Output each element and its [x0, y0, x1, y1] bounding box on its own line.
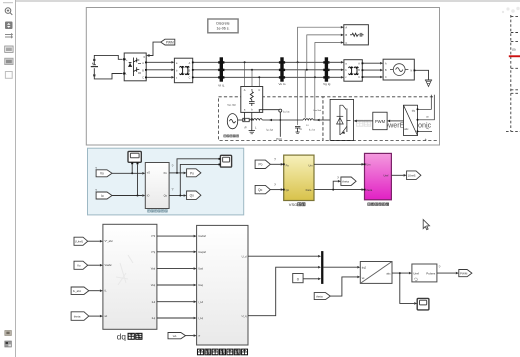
taps to RC block [244, 61, 261, 86]
svg-text:theta: theta [342, 180, 349, 184]
mouse cursor [423, 220, 429, 230]
svg-text:?: ? [274, 158, 276, 162]
dashed box equivalent grid [219, 97, 323, 141]
svg-text:R: R [245, 126, 247, 130]
wire Uref to tag [391, 174, 406, 177]
wire bus A inverter to T1 [146, 61, 174, 79]
svg-text:?: ? [172, 188, 174, 192]
svg-text:Qo: Qo [164, 193, 168, 197]
svg-text:dq2: dq2 [362, 265, 367, 269]
svg-text:ioa iob: ioa iob [283, 109, 290, 113]
wires dq outputs to inner loop block [157, 235, 197, 319]
toolbar icon image1 [5, 46, 13, 52]
wire mux to dq2abc [323, 266, 360, 269]
wire Um [314, 163, 365, 166]
svg-text:Cf: Cf [300, 127, 303, 131]
svg-text:theta: theta [74, 315, 81, 319]
svg-text:Po: Po [259, 163, 263, 167]
toolbar icon fit [5, 22, 13, 30]
svg-text:Voq: Voq [151, 283, 156, 287]
wire bus Vg bar to T2 [328, 61, 344, 79]
svg-text:Po: Po [286, 163, 290, 167]
scope1 [128, 151, 141, 164]
measurement Vo Io [278, 57, 285, 86]
svg-text:Po: Po [190, 171, 194, 175]
Cf capacitor [295, 126, 300, 133]
grid current arrow [269, 119, 272, 122]
faint corner smudge [502, 7, 520, 13]
wires tags to dq block [88, 240, 103, 318]
Goto tag Qo [187, 191, 201, 200]
svg-text:w1: w1 [173, 334, 177, 338]
toolbar icon image2 [5, 58, 13, 64]
svg-text:theta: theta [366, 188, 372, 192]
svg-text:Vg Ig: Vg Ig [323, 82, 331, 86]
toolbar icon square [5, 72, 12, 79]
wire U_q to mux [248, 266, 321, 316]
measurement Vf IL [218, 57, 225, 87]
From tag Po (row2) [255, 160, 270, 168]
svg-text:B: B [251, 88, 253, 92]
annotation frame (power stage) [86, 8, 439, 146]
svg-text:Qo: Qo [190, 194, 194, 198]
svg-text:C: C [385, 76, 387, 79]
L inductor [249, 119, 280, 121]
wire PWM to bridge g [146, 42, 160, 57]
From tag theta (bottom) [71, 312, 89, 321]
svg-text:V*_abc: V*_abc [105, 239, 114, 243]
svg-text:C: C [358, 76, 360, 79]
svg-text:VSG: VSG [289, 202, 297, 207]
wire bus T1 to Vg bar [193, 62, 325, 77]
svg-text:Vo Io: Vo Io [278, 82, 285, 86]
wire pulses to PWM tag [437, 272, 459, 275]
R resistor [238, 118, 250, 121]
svg-text:PWM: PWM [166, 41, 174, 45]
svg-text:PCC: PCC [276, 137, 282, 141]
svg-text:uoa uob: uoa uob [314, 109, 322, 112]
svg-text:IL_abc: IL_abc [73, 289, 82, 293]
measurement Vg Ig [323, 57, 331, 86]
svg-text:vO: vO [147, 170, 150, 174]
Goto tag Po [187, 169, 201, 177]
svg-text:[Uref]: [Uref] [76, 240, 84, 244]
wire const to mux [303, 278, 321, 281]
svg-text:Uref: Uref [413, 271, 419, 275]
svg-text:PWM: PWM [375, 119, 386, 124]
power calc block [145, 163, 169, 209]
svg-text:iLd: iLd [152, 300, 156, 304]
From tag theta (bottom right) [314, 293, 330, 300]
svg-text:(0): (0) [512, 48, 516, 52]
three-phase source [383, 59, 414, 80]
svg-text:C: C [189, 77, 191, 80]
blue subsystem area [88, 148, 244, 215]
wire dq2abc to pulses and scope [392, 272, 417, 305]
svg-text:Uoq: Uoq [198, 283, 203, 287]
Goto tag theta [341, 177, 356, 185]
svg-text:-: - [126, 74, 127, 77]
svg-text:C: C [345, 41, 347, 45]
Lf inductor [280, 119, 323, 120]
taps up to RLC load [297, 26, 344, 78]
svg-text:V*q: V*q [151, 250, 156, 254]
svg-text:A: A [244, 88, 246, 92]
ground symbol [425, 80, 432, 87]
wire bus T2 to source [362, 62, 383, 78]
svg-text:Qo: Qo [286, 188, 290, 192]
universal bridge (inverter) U1 [124, 53, 146, 81]
wire PWM to IGBT [354, 120, 373, 123]
svg-text:Vo: Vo [100, 172, 104, 176]
From tag Uref (bottom) [74, 237, 88, 245]
svg-text:?: ? [337, 176, 339, 180]
svg-text:Um: Um [309, 163, 313, 167]
svg-text:Vod: Vod [151, 267, 156, 271]
constant 0 [293, 274, 303, 283]
svg-text:Pulses: Pulses [426, 271, 436, 275]
svg-text:Uref: Uref [384, 173, 389, 177]
svg-text:dq: dq [412, 109, 416, 113]
svg-text:B: B [345, 33, 347, 37]
Goto tag Uref [407, 171, 421, 180]
svg-text:theta: theta [306, 188, 312, 192]
wires Po Qo to tags and scope2 [169, 159, 218, 197]
voltage current double loop block [197, 225, 248, 345]
toolbar divider [3, 2, 13, 4]
svg-text:N: N [411, 69, 413, 72]
svg-text:theta: theta [316, 295, 323, 299]
svg-text:C: C [142, 77, 144, 80]
svg-text:Lf: Lf [307, 123, 309, 127]
DC voltage source [91, 55, 126, 79]
wire dqabc to PWM [387, 120, 403, 123]
dq2 abc transform block [360, 262, 392, 284]
svg-text:U_q: U_q [242, 314, 247, 318]
svg-text:Uoqref: Uoqref [198, 250, 206, 254]
svg-text:PWM: PWM [460, 272, 468, 276]
svg-text:wt: wt [362, 276, 365, 280]
toolbar separator [15, 0, 17, 357]
svg-text:dq: dq [117, 332, 127, 341]
PWM box (annotation) [373, 112, 387, 130]
ghost badges [95, 158, 441, 270]
svg-text:L: L [255, 126, 257, 130]
svg-text:Um: Um [366, 162, 370, 166]
svg-text:?: ? [95, 167, 97, 171]
IGBT block (annotation) [330, 99, 353, 140]
wire IGBT to Lf [323, 119, 330, 121]
svg-text:U_d: U_d [242, 255, 247, 259]
PWM generator block [412, 264, 437, 282]
svg-text:iO: iO [147, 193, 150, 197]
svg-text:Discrete: Discrete [216, 22, 229, 26]
VSG control block (yellow) [283, 155, 314, 200]
svg-text:Vf IL: Vf IL [218, 84, 225, 88]
svg-text:iLq: iLq [152, 316, 156, 320]
label equivalent grid [224, 135, 239, 137]
scope2 [219, 155, 232, 167]
svg-text:Vo: Vo [77, 264, 81, 268]
right edge dashed fragment [506, 15, 520, 131]
svg-text:iga igb: iga igb [267, 127, 274, 131]
node column / ground under source [244, 110, 280, 134]
svg-text:?: ? [439, 265, 441, 269]
From tag Vo (bottom) [74, 261, 88, 269]
svg-text:wt: wt [105, 314, 108, 318]
watermark [357, 120, 432, 129]
AC source (equiv grid) [227, 114, 237, 129]
svg-text:Uod: Uod [198, 267, 203, 271]
svg-text:[Uref]: [Uref] [408, 174, 416, 178]
wire U_d to mux [248, 255, 321, 258]
svg-text:Uodref: Uodref [198, 234, 206, 238]
svg-text:Qo: Qo [258, 188, 262, 192]
svg-text:uq: uq [426, 127, 428, 130]
svg-text:V*d: V*d [151, 234, 156, 238]
Goto tag w1 [168, 333, 186, 339]
PCC node [279, 109, 282, 137]
transformer T2 [344, 60, 362, 81]
toolbar icon arrows [5, 33, 13, 39]
From tag Io [96, 192, 112, 199]
RC snubber block [241, 87, 263, 113]
toolbar icon zoom [5, 8, 12, 15]
toolbar bottom icon2 [5, 341, 12, 347]
transformer T1 [174, 58, 192, 82]
svg-text:?: ? [274, 183, 276, 187]
svg-text:i_Ld: i_Ld [198, 300, 204, 304]
svg-text:w: w [198, 335, 200, 338]
svg-text:1e-06 s.: 1e-06 s. [217, 27, 230, 31]
red line fragment [509, 55, 520, 57]
wire theta to dq2abc [330, 276, 360, 297]
svg-text:iLa iLb: iLa iLb [309, 128, 315, 132]
scope3 [417, 298, 429, 310]
mux [321, 251, 323, 284]
From tag PWM [161, 39, 175, 45]
svg-text:abc: abc [404, 127, 409, 131]
canvas top strip [16, 0, 520, 2]
svg-text:?: ? [95, 189, 97, 193]
dashed box control side [323, 97, 438, 141]
svg-text:uga ugb: uga ugb [228, 103, 237, 107]
svg-text:C: C [258, 88, 260, 92]
powergui block Discrete [208, 19, 238, 33]
wires Po Qo to VSG [270, 163, 283, 191]
dq abc annotation block [404, 105, 418, 135]
From tag IL_abc [71, 287, 89, 294]
wire source N to ground [414, 70, 428, 80]
From tag Vo [96, 170, 112, 177]
wire theta [314, 180, 365, 191]
svg-text:A: A [345, 26, 347, 30]
svg-text:θs: θs [425, 138, 427, 142]
svg-text:i_Lq: i_Lq [198, 316, 204, 320]
port squares [124, 58, 416, 78]
dq transform block [103, 224, 157, 329]
svg-text:?: ? [172, 164, 174, 168]
svg-text:abc: abc [386, 271, 391, 275]
svg-text:Po: Po [164, 171, 168, 175]
RLC load block [344, 25, 369, 45]
Goto tag PWM [459, 270, 472, 277]
svg-text:Voabc: Voabc [105, 263, 113, 267]
wires Vo Io to block and scope [112, 164, 145, 197]
svg-text:ud: ud [426, 115, 428, 118]
wire w1 to block [186, 334, 197, 337]
toolbar bottom icon1 [5, 331, 12, 336]
ref voltage gen block (magenta) [364, 153, 392, 199]
taps down to filter [298, 62, 315, 125]
From tag Qo (row2) [255, 185, 270, 193]
dq abc inputs [417, 95, 435, 133]
svg-text:Io: Io [101, 194, 104, 198]
